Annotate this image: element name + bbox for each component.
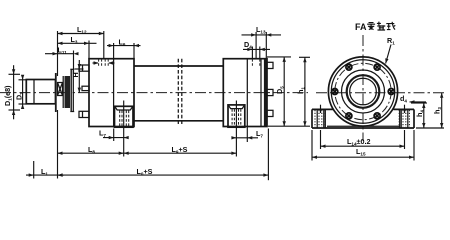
rear bottom port boss bbox=[228, 105, 245, 127]
base relief line bbox=[327, 125, 400, 127]
gland plate stack bbox=[63, 69, 74, 111]
front top port hidden lines bbox=[99, 59, 109, 67]
tie-rod nut bottom bbox=[79, 111, 89, 117]
thread symbol X-box bbox=[58, 83, 63, 96]
end view centerlines bbox=[316, 92, 444, 94]
main horizontal centerline (side view) bbox=[0, 92, 308, 94]
rear flange plate bbox=[264, 59, 267, 127]
dim h4 bbox=[411, 103, 427, 128]
dim L6 bbox=[107, 37, 141, 58]
pedestal base bbox=[312, 109, 414, 128]
bolt circle (dash-dot) bbox=[335, 63, 391, 119]
dim D5 bbox=[267, 57, 310, 126]
dim L14 bbox=[321, 130, 405, 149]
leader R1 bbox=[384, 36, 395, 64]
dim L0+S bbox=[58, 129, 269, 181]
bolt hole 60deg bbox=[374, 64, 380, 70]
dim L3 bbox=[58, 35, 97, 59]
head junction line bbox=[113, 59, 115, 127]
title FA mounting bbox=[355, 22, 395, 32]
dim L1 bbox=[26, 161, 64, 179]
bolt hole 240deg bbox=[346, 113, 352, 119]
dim D2 bbox=[15, 75, 27, 109]
dim D1(e8) bbox=[3, 65, 20, 119]
dim L7 rear bbox=[231, 127, 263, 143]
bolt hole 180deg bbox=[332, 89, 338, 95]
dim L13 bbox=[242, 25, 282, 59]
dim L8 bbox=[58, 110, 124, 179]
front port centerline bbox=[123, 101, 125, 157]
tube break lines bbox=[178, 59, 182, 126]
front head block bbox=[89, 59, 134, 127]
dim L15 bbox=[312, 130, 414, 161]
front top port arrows bbox=[93, 61, 115, 64]
tie-rod nut top bbox=[79, 65, 89, 71]
svg-text:L14±0.2: L14±0.2 bbox=[347, 137, 370, 147]
dim H bbox=[71, 60, 83, 93]
rod boss circle bbox=[347, 75, 380, 108]
rear head block bbox=[223, 59, 267, 127]
left foot hole bbox=[315, 105, 325, 128]
rod internal line bbox=[33, 80, 35, 104]
bolt hole 300deg bbox=[374, 113, 380, 119]
pilot circle bbox=[342, 70, 385, 113]
cylinder tube bbox=[134, 66, 223, 121]
dim D4 bbox=[243, 40, 270, 59]
rear bolt head middle bbox=[267, 89, 273, 95]
rear bolt head bottom bbox=[267, 110, 273, 116]
dim h1 bbox=[296, 57, 310, 126]
svg-text:FA: FA bbox=[355, 22, 367, 32]
dim L11 bbox=[45, 45, 79, 74]
rear top port hidden lines bbox=[252, 59, 259, 67]
rod block bbox=[26, 80, 55, 104]
right foot edge bbox=[399, 109, 401, 128]
rear head junction line bbox=[246, 59, 248, 127]
leader d4 bbox=[400, 94, 426, 104]
svg-text:L0+S: L0+S bbox=[137, 167, 153, 177]
flange outer circle bbox=[328, 57, 397, 126]
dim L7 front bbox=[99, 129, 129, 142]
right foot hole bbox=[399, 105, 409, 128]
bore circle bbox=[350, 78, 377, 105]
gland boss screw bbox=[82, 86, 89, 90]
dim L9+S bbox=[124, 145, 237, 155]
rear cover line bbox=[260, 59, 262, 127]
svg-text:L9+S: L9+S bbox=[172, 145, 188, 155]
bolt hole 120deg bbox=[346, 64, 352, 70]
dim L12 bbox=[58, 25, 104, 76]
rear bolt head top bbox=[267, 62, 273, 68]
front bottom port boss bbox=[115, 106, 134, 127]
dim h3 bbox=[416, 93, 444, 128]
rod face line bbox=[55, 73, 57, 112]
svg-text:D1(e8): D1(e8) bbox=[3, 85, 13, 106]
left foot edge bbox=[324, 109, 326, 128]
rear port centerline bbox=[235, 101, 237, 157]
bolt hole 0deg bbox=[388, 89, 394, 95]
svg-text:H: H bbox=[71, 72, 80, 77]
flange rim inner circle bbox=[331, 60, 394, 123]
